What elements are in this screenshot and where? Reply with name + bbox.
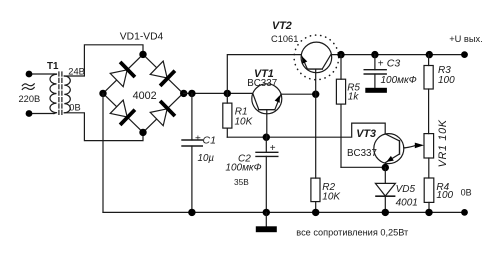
diode VD5	[375, 168, 395, 213]
svg-text:10K: 10K	[322, 191, 341, 202]
node bridge left	[99, 90, 106, 97]
node C1 bottom	[188, 209, 195, 216]
svg-text:BC337: BC337	[347, 148, 377, 159]
svg-text:C1: C1	[203, 134, 216, 146]
wire junction up to top rail left segment	[227, 55, 300, 94]
label AC tilde	[22, 83, 35, 90]
node C3 top	[371, 51, 378, 58]
node R2 bottom	[312, 209, 319, 216]
transistor VT2	[294, 35, 339, 94]
wire R5 bottom to VT3 emitter node	[341, 166, 385, 168]
wire ground rail	[103, 211, 465, 213]
svg-text:+: +	[195, 134, 201, 145]
wire secondary bottom to bridge bottom node	[64, 113, 143, 141]
bridge arm bottom-left	[103, 93, 143, 132]
svg-text:0В: 0В	[461, 187, 472, 197]
bridge arm top-right	[143, 54, 183, 93]
potentiometer VR1	[424, 134, 434, 178]
terminal dot primary top	[26, 71, 33, 78]
node C1 top	[188, 90, 195, 97]
node R3 top	[426, 51, 433, 58]
svg-text:10µ: 10µ	[198, 153, 215, 164]
wire top rail right segment	[331, 54, 464, 56]
diode VD4 bottom-right arm	[149, 100, 176, 127]
node VT2 base junction	[312, 91, 319, 98]
svg-text:100мкФ: 100мкФ	[225, 163, 261, 174]
transformer T1 core	[58, 72, 60, 115]
svg-text:4001: 4001	[396, 198, 418, 209]
node R5 top	[337, 51, 344, 58]
node VT3 emitter	[382, 164, 389, 171]
node R4 bottom	[425, 209, 432, 216]
svg-text:T1: T1	[47, 61, 59, 72]
transformer T1 secondary coil	[64, 76, 70, 113]
bridge arm bottom-right	[143, 93, 183, 132]
wiper arrow VT3 base to VR1	[405, 143, 424, 149]
diode VD3 bottom-left arm	[109, 99, 136, 126]
node bridge bottom	[139, 129, 146, 136]
svg-text:220В: 220В	[19, 94, 41, 104]
capacitor C2	[256, 137, 278, 212]
bridge arm top-left	[103, 54, 143, 93]
svg-text:4002: 4002	[133, 90, 157, 102]
svg-text:C1061: C1061	[271, 34, 298, 44]
terminal dot primary bottom	[26, 110, 33, 117]
svg-text:35В: 35В	[234, 177, 249, 187]
node R1 top junction	[224, 90, 231, 97]
resistor R1	[223, 93, 232, 137]
svg-text:VD5: VD5	[396, 184, 416, 195]
resistor R2	[311, 178, 320, 212]
svg-text:C3: C3	[387, 57, 401, 69]
svg-text:VD1-VD4: VD1-VD4	[120, 32, 164, 43]
svg-text:+: +	[270, 143, 276, 154]
wire bridge left node down to ground rail	[102, 93, 104, 212]
wire VT1 emitter to VT2 base junction	[281, 93, 316, 95]
transformer T1 primary coil	[50, 74, 56, 114]
resistor R5	[336, 55, 345, 168]
wire VT2 base down to R2	[315, 94, 317, 178]
terminal +U out	[461, 51, 468, 58]
ground symbol	[256, 212, 277, 232]
svg-text:+: +	[378, 58, 384, 69]
node VD5 bottom	[382, 209, 389, 216]
svg-text:100мкФ: 100мкФ	[381, 75, 417, 86]
node bridge right	[180, 90, 187, 97]
transistor VT1	[252, 84, 282, 137]
capacitor C1	[182, 93, 202, 212]
wire plus rail from bridge right node to VT1	[184, 92, 253, 94]
wire primary top lead	[29, 73, 54, 75]
svg-text:24В: 24В	[68, 66, 85, 76]
diode VD2 top-right arm	[149, 60, 176, 87]
resistor R4	[424, 178, 434, 212]
node bridge top	[139, 51, 146, 58]
svg-text:+U вых.: +U вых.	[449, 34, 483, 44]
svg-text:1k: 1k	[348, 92, 360, 103]
wire primary bottom lead	[29, 113, 54, 115]
diode VD1 top-left arm	[109, 61, 136, 88]
svg-text:100: 100	[436, 190, 453, 201]
svg-text:100: 100	[438, 75, 455, 86]
wire node A horizontal to VT3 collector	[227, 123, 385, 137]
capacitor C3	[364, 55, 387, 93]
node C2 bottom	[263, 209, 270, 216]
svg-text:VR1 10K: VR1 10K	[437, 119, 449, 167]
terminal 0V out	[461, 209, 468, 216]
svg-text:10K: 10K	[235, 116, 254, 127]
svg-text:BC337: BC337	[247, 78, 277, 89]
svg-text:0В: 0В	[69, 103, 80, 113]
node A dot	[263, 134, 270, 141]
svg-text:VT2: VT2	[272, 20, 292, 32]
svg-text:VT3: VT3	[356, 128, 376, 140]
svg-text:все сопротивления 0,25Вт: все сопротивления 0,25Вт	[296, 227, 409, 237]
transistor VT3	[374, 134, 405, 168]
wire secondary top to bridge top node	[64, 45, 143, 76]
resistor R3	[424, 55, 433, 134]
